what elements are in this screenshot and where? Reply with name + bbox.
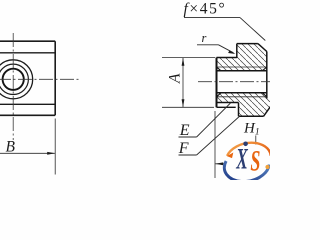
dimension B extension line bbox=[54, 119, 56, 175]
svg-text:F: F bbox=[178, 140, 189, 157]
logo swirl ellipse bbox=[220, 139, 275, 186]
svg-text:E: E bbox=[179, 122, 190, 139]
body left face bbox=[216, 58, 218, 108]
body top edge bbox=[217, 57, 237, 59]
right face bbox=[266, 52, 268, 99]
svg-text:A: A bbox=[167, 73, 184, 84]
horizontal centerline bbox=[0, 78, 80, 80]
bore entrance chamfer left top bbox=[217, 67, 222, 71]
dimension H1 right extension line bbox=[255, 136, 257, 146]
label B bbox=[6, 138, 16, 155]
logo i dot bbox=[243, 142, 248, 147]
hatching lower material region bbox=[217, 93, 271, 117]
body bottom edge bbox=[217, 102, 239, 104]
label A (rotated) bbox=[167, 73, 184, 84]
bore minor line bottom (bold) bbox=[217, 92, 267, 94]
svg-text:r: r bbox=[202, 31, 207, 45]
svg-text:X: X bbox=[236, 143, 249, 176]
svg-text:B: B bbox=[6, 138, 16, 155]
svg-text:f×45°: f×45° bbox=[184, 0, 227, 17]
bottom chamfer bbox=[264, 107, 271, 117]
section centerline bbox=[198, 81, 270, 83]
thread minor circle (bold) bbox=[3, 69, 24, 90]
top chamfer f x 45 bbox=[258, 44, 267, 52]
logo letter X bbox=[236, 143, 249, 176]
svg-text:S: S bbox=[250, 145, 260, 178]
dimension H1 line with left arrow bbox=[215, 162, 257, 165]
hatching upper material region bbox=[217, 44, 267, 71]
dimension H1 left extension line bbox=[214, 111, 216, 178]
flange top edge bbox=[237, 43, 258, 45]
label F with underline and leader bbox=[178, 117, 240, 157]
thread major line top bbox=[217, 66, 267, 68]
flange left edge bbox=[236, 44, 238, 58]
thread major circle bbox=[0, 64, 28, 94]
vertical centerline bbox=[12, 33, 14, 140]
label E with underline and leader bbox=[179, 103, 231, 139]
thread major line bottom bbox=[217, 96, 267, 98]
bore entrance chamfer right top bbox=[262, 67, 267, 71]
left view lower edge line bbox=[0, 103, 55, 105]
label f x 45 with leader bbox=[184, 0, 266, 40]
chamfer circle bbox=[0, 60, 33, 99]
logo sparkle bbox=[265, 165, 269, 169]
bore entrance chamfer left bottom bbox=[217, 93, 222, 97]
left view outline bbox=[0, 41, 55, 115]
dimension A line with arrows bbox=[182, 58, 185, 107]
bottom flange edge bbox=[239, 115, 264, 117]
bore minor line top (bold) bbox=[217, 70, 267, 72]
label H1 bbox=[243, 121, 260, 138]
label r with leader arrow bbox=[197, 31, 236, 54]
svg-text:H1: H1 bbox=[243, 121, 260, 138]
left view upper edge line bbox=[0, 52, 55, 54]
step vertical edge bbox=[238, 103, 240, 117]
lower visible edge bbox=[217, 106, 236, 108]
logo letter S bbox=[250, 145, 260, 178]
bore entrance chamfer right bottom bbox=[262, 93, 267, 97]
dimension A extension line top bbox=[162, 57, 215, 59]
dimension A extension line bottom bbox=[162, 106, 214, 108]
dimension B line with arrow bbox=[0, 152, 55, 155]
